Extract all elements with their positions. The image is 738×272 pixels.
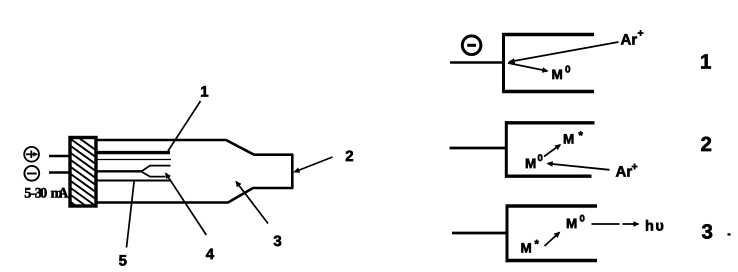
pointer arrow to label 4 bbox=[166, 173, 207, 235]
step 2: cathode wall bracket bbox=[505, 121, 595, 177]
anode terminal (+) bbox=[24, 147, 39, 162]
step 3: cathode wall bracket bbox=[506, 205, 598, 263]
svg-text:3: 3 bbox=[702, 220, 713, 243]
wire anode lead bbox=[49, 155, 70, 158]
svg-text:Ar: Ar bbox=[616, 164, 633, 181]
step 2: Ar+ collision arrow bbox=[548, 164, 610, 170]
svg-text:0: 0 bbox=[580, 214, 585, 225]
lower support wire bbox=[96, 180, 170, 182]
step 2: excitation arrow M0 to M* bbox=[544, 145, 560, 157]
svg-text:M: M bbox=[552, 67, 563, 82]
svg-text:*: * bbox=[579, 130, 584, 142]
stray dot mark bbox=[728, 233, 731, 235]
pointer line to label 5 bbox=[127, 181, 135, 248]
svg-text:+: + bbox=[638, 28, 644, 40]
step 3: relaxation arrow M* to M0 bbox=[545, 232, 560, 246]
svg-text:Ar: Ar bbox=[621, 31, 638, 48]
step 3: photon emission arrow bbox=[592, 223, 639, 225]
anode support wire bbox=[96, 151, 170, 154]
svg-text:mA: mA bbox=[51, 186, 70, 202]
lamp envelope bbox=[96, 140, 292, 203]
svg-text:4: 4 bbox=[206, 246, 215, 263]
svg-text:0: 0 bbox=[565, 65, 571, 76]
step 1: cathode (-) symbol bbox=[462, 36, 481, 55]
svg-text:2: 2 bbox=[345, 148, 353, 165]
svg-text:M: M bbox=[525, 156, 536, 171]
svg-text:hυ: hυ bbox=[645, 219, 665, 235]
pointer line to label 2 bbox=[294, 157, 332, 172]
step 1: cathode wall bracket bbox=[503, 33, 595, 93]
svg-text:5: 5 bbox=[119, 253, 127, 270]
step 1: wire lead bbox=[450, 61, 504, 64]
cathode terminal (-) bbox=[24, 166, 39, 181]
wire upper thin support bbox=[96, 159, 171, 161]
svg-text:3: 3 bbox=[273, 233, 281, 250]
svg-text:M: M bbox=[521, 241, 532, 256]
svg-text:M: M bbox=[563, 132, 574, 147]
step 1: sputtered M0 arrow bbox=[508, 63, 548, 71]
pointer arrow to label 3 bbox=[236, 182, 268, 224]
svg-text:5–30: 5–30 bbox=[24, 186, 47, 202]
svg-text:2: 2 bbox=[701, 133, 712, 156]
pointer line to label 1 bbox=[168, 101, 201, 151]
wire cathode lead bbox=[49, 171, 70, 174]
step 1: Ar+ ion trajectory arrow bbox=[510, 42, 619, 62]
step 3: wire lead bbox=[452, 232, 507, 235]
svg-text:1: 1 bbox=[200, 84, 208, 101]
svg-text:*: * bbox=[535, 238, 540, 250]
lamp base block (hatched) bbox=[70, 138, 96, 207]
svg-text:0: 0 bbox=[538, 153, 543, 164]
cathode support wire and hollow cathode cup bbox=[96, 166, 171, 177]
svg-text:M: M bbox=[566, 216, 577, 231]
svg-text:+: + bbox=[632, 161, 638, 173]
step 2: wire lead bbox=[450, 147, 507, 150]
svg-text:1: 1 bbox=[700, 50, 711, 73]
